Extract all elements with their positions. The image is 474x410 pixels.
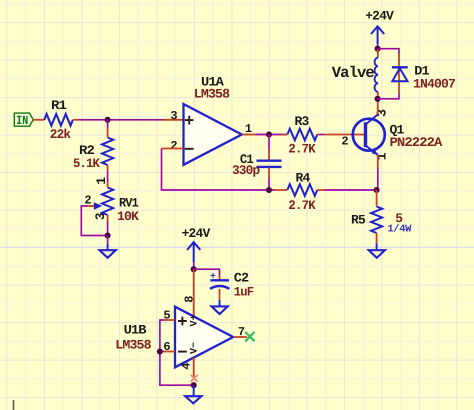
wiper wire [81,206,107,236]
node emitter junction [374,187,380,193]
pin 1 stub [242,134,256,136]
svg-text:2: 2 [170,139,177,153]
svg-text:PN2222A: PN2222A [390,135,443,150]
ground under U1B [193,385,195,396]
svg-text:3: 3 [375,109,390,117]
svg-text:R4: R4 [296,171,311,186]
capacitor C1 [268,135,270,151]
svg-text:22k: 22k [50,127,72,142]
op-amp U1B [175,307,233,368]
pin 7 stub [233,336,247,338]
Q1 collector pin [377,101,379,115]
svg-text:LM358: LM358 [115,337,152,352]
resistor R1 [44,114,73,126]
svg-text:2.7K: 2.7K [288,198,315,213]
wire pin1 to junction [256,134,288,136]
svg-text:U1B: U1B [124,323,147,338]
svg-text:8: 8 [182,296,196,303]
potentiometer RV1 [102,188,113,216]
svg-text:R5: R5 [351,213,366,228]
node pin6 [157,348,163,354]
wire R1 lead right [73,119,79,121]
ground under C2 [212,306,228,314]
node junction R1/R2 [105,117,111,123]
feedback wire pin2 to C1 bottom [162,149,275,191]
svg-text:2: 2 [341,134,348,148]
svg-text:10K: 10K [117,209,139,224]
RV1 pin3 to junction [107,215,109,221]
op-amp U1A [184,104,242,165]
node C1 bottom [266,187,272,193]
pin 2 stub [162,148,184,150]
resistor R4 [274,189,287,191]
port IN [14,113,33,128]
svg-text:1uF: 1uF [234,284,254,299]
svg-text:4: 4 [180,362,194,369]
diode D1 [398,54,400,94]
wire branch to D1 [378,49,399,54]
pin 5 stub [164,319,175,321]
Q1 emitter pin [377,155,379,168]
resistor R5 [376,190,378,207]
wire emitter to junction [377,168,379,190]
ground under RV1 [107,236,109,245]
wire IN to R1 [33,119,44,121]
Q1 base pin [324,134,364,136]
svg-text:R3: R3 [295,114,310,129]
svg-text:V+: V+ [189,314,200,326]
node valve bottom [375,96,381,102]
pin 6 stub [164,351,175,353]
node output junction [266,131,272,137]
svg-text:2.7K: 2.7K [288,142,315,157]
capacitor C2 [219,276,221,280]
node power junction [191,266,197,272]
svg-text:+24V: +24V [182,226,211,241]
node RV1 bottom [105,232,111,238]
svg-text:5.1K: 5.1K [73,156,100,171]
svg-text:3: 3 [93,212,108,220]
svg-text:1: 1 [374,152,389,160]
pin 3 stub U1A [163,119,184,121]
ground under R5 [369,250,385,258]
resistor R3 [281,134,287,136]
svg-text:+24V: +24V [365,9,394,24]
no-connect X pin7 [245,332,254,341]
resistor R2 [102,138,113,166]
input tie wires [160,320,194,385]
inductor Valve [377,49,379,58]
transistor Q1 [353,119,385,151]
wire to op-amp pin3 [79,119,163,121]
sheet border tick [13,400,15,410]
svg-text:1: 1 [94,177,109,185]
svg-text:LM358: LM358 [194,86,231,101]
svg-text:V−: V− [189,342,200,354]
node valve top [375,46,381,52]
svg-text:1N4007: 1N4007 [413,76,455,91]
RV1 wiper arrow [88,205,96,207]
wire R2 to RV1 [107,165,109,171]
no-ERC marker pin4 [191,375,198,382]
svg-text:330p: 330p [232,163,261,178]
svg-text:IN: IN [16,114,28,128]
wire to C2 [194,269,220,276]
svg-text:3: 3 [170,109,177,123]
pin 4 U1B [193,358,195,378]
svg-text:Valve: Valve [332,64,375,82]
pin 8 U1B [193,269,195,316]
wire junction to R2 [107,120,109,128]
svg-text:1/4W: 1/4W [387,224,412,236]
node pin4/ground [191,382,197,388]
svg-text:R1: R1 [51,98,67,113]
